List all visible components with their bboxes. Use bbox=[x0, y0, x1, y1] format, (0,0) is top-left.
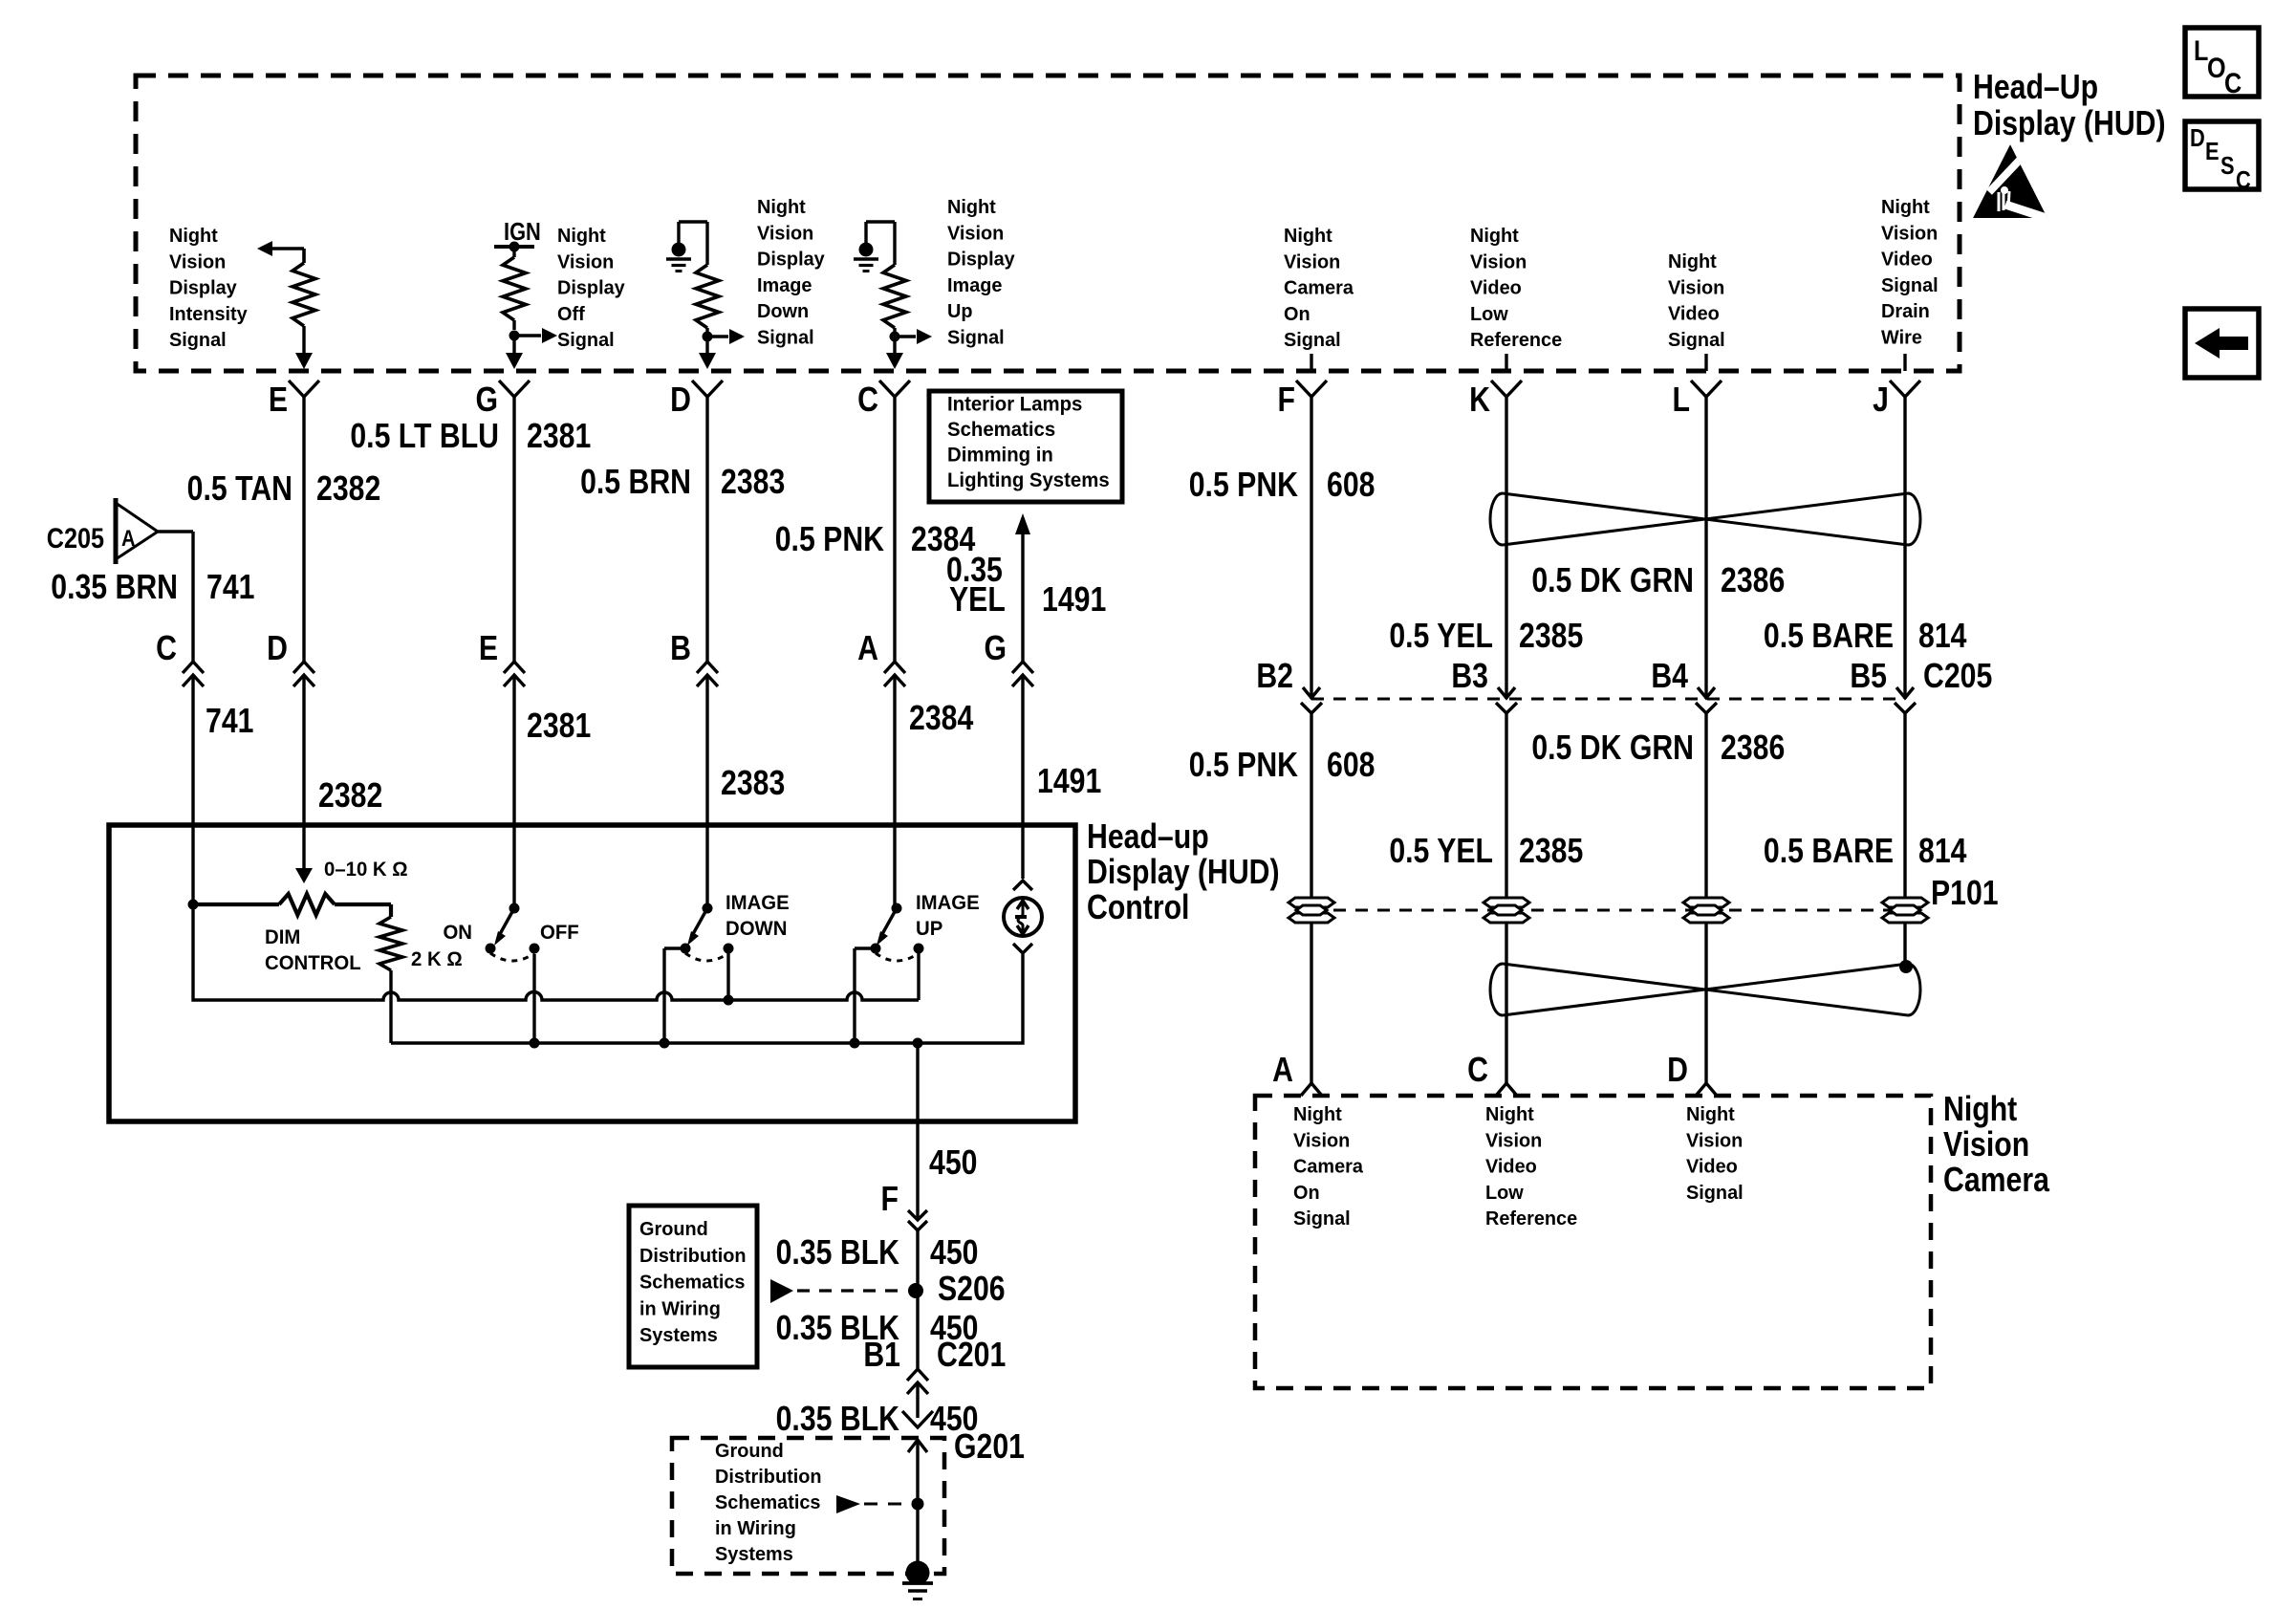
IGN feed bar bbox=[494, 245, 534, 249]
svg-text:2386: 2386 bbox=[1721, 562, 1785, 600]
resistor in HUD (off) bbox=[503, 257, 526, 320]
P101 pass-through grommet bbox=[1683, 898, 1729, 907]
svg-text:Dimming in: Dimming in bbox=[947, 444, 1053, 466]
wire E->C 0.5 TAN 2382 bbox=[302, 397, 305, 662]
svg-text:S: S bbox=[2220, 152, 2235, 180]
illumination control (circle) in HUD control bbox=[1013, 881, 1032, 890]
svg-text:A: A bbox=[1272, 1052, 1293, 1090]
inline connector C (HUD control) bbox=[183, 662, 204, 673]
svg-text:450: 450 bbox=[930, 1234, 978, 1273]
svg-text:Ground: Ground bbox=[639, 1219, 708, 1240]
resistor in HUD (intensity) bbox=[292, 263, 315, 326]
svg-text:608: 608 bbox=[1327, 467, 1375, 505]
svg-text:B5: B5 bbox=[1850, 658, 1887, 696]
svg-text:0.35 BLK: 0.35 BLK bbox=[776, 1234, 899, 1273]
junction on upper bus bbox=[724, 995, 734, 1006]
wire 741 into HUD control bbox=[191, 675, 194, 904]
svg-text:2 K Ω: 2 K Ω bbox=[411, 948, 463, 970]
wire D->B 0.5 BRN 2383 bbox=[705, 397, 708, 662]
svg-text:Ground: Ground bbox=[715, 1441, 784, 1462]
svg-text:Reference: Reference bbox=[1485, 1208, 1577, 1229]
svg-text:IMAGE: IMAGE bbox=[726, 892, 790, 914]
svg-text:814: 814 bbox=[1918, 833, 1967, 871]
svg-text:Low: Low bbox=[1470, 304, 1508, 325]
svg-text:0.5 BRN: 0.5 BRN bbox=[580, 464, 691, 502]
DESC box bbox=[2185, 121, 2259, 189]
svg-text:Vision: Vision bbox=[1668, 277, 1724, 298]
svg-text:Video: Video bbox=[1485, 1156, 1537, 1177]
svg-text:2383: 2383 bbox=[721, 765, 785, 803]
connector pin C of HUD bbox=[879, 381, 910, 397]
connector pin B4 bbox=[1698, 687, 1715, 698]
svg-text:Head–up: Head–up bbox=[1087, 818, 1209, 857]
inline connector P101 bbox=[1311, 909, 1917, 912]
svg-text:C205: C205 bbox=[1923, 658, 1992, 696]
svg-text:C205: C205 bbox=[47, 522, 104, 555]
junction image-down wire bbox=[660, 1038, 670, 1049]
DIM CONTROL potentiometer 0-10 K ohm bbox=[279, 894, 335, 915]
svg-text:O: O bbox=[2207, 52, 2226, 84]
dashed link arrow inside G201 box bbox=[836, 1495, 860, 1513]
svg-text:Schematics: Schematics bbox=[947, 419, 1055, 441]
svg-text:IGN: IGN bbox=[504, 218, 541, 246]
wire 2381 into HUD control bbox=[512, 675, 515, 908]
wire 608 F->B2 bbox=[1310, 397, 1312, 699]
svg-text:C: C bbox=[2236, 166, 2251, 194]
svg-text:Off: Off bbox=[557, 304, 585, 325]
svg-text:814: 814 bbox=[1918, 618, 1967, 656]
svg-text:A: A bbox=[857, 630, 878, 668]
svg-text:L: L bbox=[1673, 381, 1690, 420]
svg-text:CONTROL: CONTROL bbox=[265, 952, 361, 974]
svg-text:Night: Night bbox=[1485, 1104, 1534, 1125]
svg-text:P101: P101 bbox=[1931, 875, 1999, 913]
connector pin F of HUD bbox=[1296, 381, 1327, 397]
wire 0.35 YEL 1491 with arrow up to Interior Lamps box bbox=[1015, 513, 1030, 534]
svg-text:E: E bbox=[269, 381, 288, 420]
svg-text:Night: Night bbox=[1686, 1104, 1735, 1125]
svg-text:Night: Night bbox=[1293, 1104, 1342, 1125]
svg-text:Vision: Vision bbox=[1686, 1130, 1743, 1151]
svg-text:C201: C201 bbox=[937, 1337, 1006, 1375]
svg-text:Camera: Camera bbox=[1293, 1156, 1364, 1177]
svg-text:2381: 2381 bbox=[527, 707, 591, 746]
svg-text:Vision: Vision bbox=[1943, 1126, 2029, 1164]
wire 1491 into HUD control bbox=[1021, 675, 1024, 879]
ground symbol (image up) bbox=[859, 243, 874, 257]
svg-text:Low: Low bbox=[1485, 1183, 1524, 1204]
svg-text:Systems: Systems bbox=[639, 1325, 718, 1346]
Interior Lamps Schematics reference box bbox=[929, 391, 1122, 502]
wire G->E 0.5 LT BLU 2381 bbox=[512, 397, 515, 662]
wire OFF contact down bbox=[532, 954, 535, 1043]
svg-text:Video: Video bbox=[1881, 249, 1933, 270]
svg-text:Display (HUD): Display (HUD) bbox=[1087, 854, 1280, 892]
connector pin D of HUD bbox=[692, 381, 723, 397]
bus wire (upper) with hops bbox=[193, 904, 919, 1000]
svg-text:0.35 BLK: 0.35 BLK bbox=[776, 1401, 899, 1439]
svg-text:Signal: Signal bbox=[1881, 275, 1939, 296]
svg-text:0.5 BARE: 0.5 BARE bbox=[1764, 618, 1894, 656]
svg-text:Video: Video bbox=[1668, 303, 1720, 324]
wire 2385 B3->P101 bbox=[1505, 713, 1507, 1083]
svg-text:1491: 1491 bbox=[1042, 581, 1106, 620]
svg-text:2382: 2382 bbox=[316, 470, 380, 509]
LOC box bbox=[2185, 28, 2259, 97]
twisted pair symbol (lower) bbox=[1503, 964, 1908, 1015]
svg-text:2382: 2382 bbox=[318, 777, 382, 816]
svg-text:S206: S206 bbox=[938, 1271, 1006, 1309]
svg-text:Vision: Vision bbox=[1485, 1130, 1542, 1151]
svg-text:Signal: Signal bbox=[169, 330, 227, 351]
svg-text:UP: UP bbox=[916, 918, 942, 940]
svg-text:0.5 PNK: 0.5 PNK bbox=[1189, 747, 1298, 785]
Night Vision Camera dashed box bbox=[1255, 1096, 1931, 1388]
svg-text:Display: Display bbox=[557, 277, 625, 298]
resistor 2 K ohm bbox=[379, 917, 402, 970]
switch IMAGE UP bbox=[892, 903, 902, 914]
arrow to Up Signal text bbox=[895, 335, 916, 337]
svg-text:B3: B3 bbox=[1451, 658, 1488, 696]
wire 2384 into HUD control bbox=[893, 675, 896, 908]
svg-text:IMAGE: IMAGE bbox=[916, 892, 980, 914]
svg-text:J: J bbox=[1873, 381, 1889, 420]
svg-text:450: 450 bbox=[929, 1144, 977, 1183]
connector pin G of HUD bbox=[499, 381, 530, 397]
svg-text:Head–Up: Head–Up bbox=[1973, 69, 2098, 107]
Ground Distribution Schematics reference box (dashed, G201) bbox=[672, 1438, 944, 1574]
svg-text:2385: 2385 bbox=[1519, 618, 1583, 656]
connector pin B5 bbox=[1896, 687, 1914, 698]
inline connector B (HUD control) bbox=[697, 662, 718, 673]
svg-text:YEL: YEL bbox=[949, 581, 1006, 620]
Head-Up Display (HUD) component dashed box bbox=[136, 76, 1960, 371]
wire image-down right contact bbox=[726, 948, 729, 1000]
svg-text:E: E bbox=[2205, 138, 2220, 165]
arrow to Down Signal text bbox=[707, 335, 728, 337]
svg-text:Interior Lamps: Interior Lamps bbox=[947, 393, 1082, 415]
svg-text:K: K bbox=[1469, 381, 1490, 420]
ground stud G201 bbox=[906, 1561, 930, 1585]
svg-text:DIM: DIM bbox=[265, 926, 300, 948]
svg-text:Vision: Vision bbox=[557, 251, 614, 272]
svg-text:0.5 YEL: 0.5 YEL bbox=[1389, 618, 1493, 656]
svg-text:Signal: Signal bbox=[1284, 330, 1341, 351]
svg-text:Signal: Signal bbox=[1668, 330, 1725, 351]
svg-text:A: A bbox=[121, 525, 136, 551]
svg-text:0.5 YEL: 0.5 YEL bbox=[1389, 833, 1493, 871]
svg-text:0.5 PNK: 0.5 PNK bbox=[1189, 467, 1298, 505]
camera connector pin C bbox=[1496, 1083, 1517, 1096]
wire pot left bbox=[193, 903, 279, 906]
svg-text:Signal: Signal bbox=[947, 327, 1005, 348]
svg-text:Display (HUD): Display (HUD) bbox=[1973, 105, 2166, 143]
connector pin B3 bbox=[1498, 687, 1515, 698]
svg-text:Distribution: Distribution bbox=[715, 1467, 822, 1488]
svg-text:Camera: Camera bbox=[1943, 1162, 2049, 1200]
svg-text:B2: B2 bbox=[1256, 658, 1293, 696]
Head-up Display (HUD) Control box bbox=[109, 825, 1075, 1121]
svg-text:C: C bbox=[1467, 1052, 1488, 1090]
P101 pass-through grommet bbox=[1289, 898, 1334, 907]
svg-text:D: D bbox=[670, 381, 691, 420]
wire 2383 into HUD control bbox=[705, 675, 708, 908]
twisted pair symbol (upper) bbox=[1503, 493, 1908, 545]
svg-text:Image: Image bbox=[947, 275, 1002, 296]
svg-text:C: C bbox=[857, 381, 878, 420]
wire 814 B5->P101 bbox=[1903, 713, 1906, 969]
svg-text:OFF: OFF bbox=[540, 922, 579, 944]
svg-text:Display: Display bbox=[757, 249, 825, 270]
wire 2382 into HUD control bbox=[302, 675, 305, 868]
wire C->A 0.5 PNK 2384 bbox=[893, 397, 896, 662]
wire 450 out of HUD control bbox=[916, 1043, 919, 1220]
svg-text:C: C bbox=[2224, 67, 2242, 99]
svg-text:Signal: Signal bbox=[557, 330, 615, 351]
svg-text:0.5 BARE: 0.5 BARE bbox=[1764, 833, 1894, 871]
svg-text:F: F bbox=[881, 1181, 899, 1219]
svg-text:Video: Video bbox=[1686, 1156, 1738, 1177]
svg-text:Lighting Systems: Lighting Systems bbox=[947, 469, 1110, 491]
svg-text:Video: Video bbox=[1470, 277, 1522, 298]
svg-text:Reference: Reference bbox=[1470, 330, 1562, 351]
wire 0.35 BRN 741 from C205 bbox=[158, 530, 193, 533]
svg-text:D: D bbox=[267, 630, 288, 668]
wire image-down left contact bbox=[664, 946, 685, 949]
P101 pass-through grommet bbox=[1882, 898, 1928, 907]
inline connector E (HUD control) bbox=[504, 662, 525, 673]
connector pin B2 bbox=[1303, 687, 1320, 698]
svg-text:Systems: Systems bbox=[715, 1544, 793, 1565]
wire 814 J->B5 bbox=[1903, 397, 1906, 699]
splice S206 bbox=[908, 1283, 923, 1298]
svg-text:2383: 2383 bbox=[721, 464, 785, 502]
connector pin L of HUD bbox=[1691, 381, 1722, 397]
svg-text:DOWN: DOWN bbox=[726, 918, 787, 940]
svg-text:Image: Image bbox=[757, 275, 812, 296]
Ground Distribution Schematics reference box (solid) bbox=[629, 1206, 757, 1367]
svg-text:Vision: Vision bbox=[169, 251, 226, 272]
svg-text:B1: B1 bbox=[863, 1337, 900, 1375]
inline connector G (HUD control) bbox=[1012, 662, 1033, 673]
svg-text:Distribution: Distribution bbox=[639, 1246, 747, 1267]
svg-text:Camera: Camera bbox=[1284, 277, 1354, 298]
svg-text:E: E bbox=[479, 630, 498, 668]
svg-text:G: G bbox=[984, 630, 1007, 668]
arrow from 2382 onto DIM CONTROL bbox=[295, 868, 313, 883]
resistor in HUD (image up) bbox=[883, 265, 906, 328]
svg-text:Vision: Vision bbox=[1881, 223, 1938, 244]
node: pot left terminal bbox=[188, 900, 199, 910]
svg-text:Down: Down bbox=[757, 301, 809, 322]
camera connector pin D bbox=[1696, 1083, 1717, 1096]
svg-text:G: G bbox=[475, 381, 498, 420]
svg-text:741: 741 bbox=[206, 569, 254, 607]
svg-text:2385: 2385 bbox=[1519, 833, 1583, 871]
wire 2386 L->B4 bbox=[1704, 397, 1707, 699]
junction OFF wire bbox=[530, 1038, 540, 1049]
svg-text:0.5 PNK: 0.5 PNK bbox=[775, 521, 884, 559]
svg-text:1491: 1491 bbox=[1037, 763, 1101, 801]
ground symbol (image down) bbox=[672, 243, 686, 257]
P101 pass-through grommet bbox=[1484, 898, 1529, 907]
svg-text:L: L bbox=[2194, 34, 2208, 67]
svg-text:2381: 2381 bbox=[527, 418, 591, 456]
svg-text:Vision: Vision bbox=[1293, 1130, 1350, 1151]
svg-text:Signal: Signal bbox=[1686, 1183, 1744, 1204]
svg-text:0.5 DK GRN: 0.5 DK GRN bbox=[1531, 562, 1694, 600]
svg-text:Up: Up bbox=[947, 301, 973, 322]
svg-text:0.5 LT BLU: 0.5 LT BLU bbox=[350, 418, 499, 456]
svg-text:Vision: Vision bbox=[947, 223, 1004, 244]
inline connector A (HUD control) bbox=[884, 662, 905, 673]
svg-text:Night: Night bbox=[757, 197, 806, 218]
potentiometer wiper arrow (left) bbox=[271, 247, 304, 250]
svg-text:0.5 TAN: 0.5 TAN bbox=[187, 470, 292, 509]
wire 608 B2->P101 bbox=[1310, 712, 1312, 1083]
svg-text:Vision: Vision bbox=[757, 223, 813, 244]
connector pin E of HUD bbox=[289, 381, 319, 397]
inline connector D (HUD control) bbox=[293, 662, 314, 673]
svg-text:2384: 2384 bbox=[909, 700, 974, 738]
svg-text:Night: Night bbox=[1943, 1091, 2017, 1129]
resistor in HUD (image down) bbox=[696, 265, 719, 328]
svg-text:608: 608 bbox=[1327, 747, 1375, 785]
svg-text:Schematics: Schematics bbox=[715, 1492, 820, 1513]
drain wire termination node bbox=[1899, 960, 1913, 973]
svg-text:F: F bbox=[1278, 381, 1295, 420]
svg-text:Wire: Wire bbox=[1881, 327, 1922, 348]
camera connector pin A bbox=[1301, 1083, 1322, 1096]
ground G201 bbox=[902, 1411, 933, 1427]
svg-text:Night: Night bbox=[947, 197, 996, 218]
wire pot right to 2K resistor bbox=[335, 903, 391, 906]
svg-text:Display: Display bbox=[169, 277, 237, 298]
svg-text:0.5 DK GRN: 0.5 DK GRN bbox=[1531, 729, 1694, 768]
svg-text:G201: G201 bbox=[954, 1428, 1025, 1467]
inline connector C205 row B2-B5 bbox=[1311, 698, 1905, 701]
svg-text:Control: Control bbox=[1087, 889, 1189, 927]
svg-text:C: C bbox=[156, 630, 177, 668]
svg-text:Schematics: Schematics bbox=[639, 1272, 745, 1293]
arrow to Off Signal text bbox=[514, 334, 541, 337]
wire image-up right contact bbox=[917, 948, 920, 1000]
svg-text:B4: B4 bbox=[1651, 658, 1688, 696]
svg-text:0–10 K Ω: 0–10 K Ω bbox=[324, 859, 408, 881]
wire image-up left contact bbox=[855, 946, 876, 949]
junction 450 take-off bbox=[913, 1038, 923, 1049]
svg-text:Intensity: Intensity bbox=[169, 304, 248, 325]
svg-text:Night: Night bbox=[1470, 226, 1519, 247]
svg-text:On: On bbox=[1284, 304, 1310, 325]
svg-text:Vision: Vision bbox=[1284, 251, 1340, 272]
svg-text:in Wiring: in Wiring bbox=[715, 1518, 796, 1539]
svg-text:Night: Night bbox=[1284, 226, 1332, 247]
svg-text:Night: Night bbox=[1881, 197, 1930, 218]
svg-text:Signal: Signal bbox=[1293, 1208, 1351, 1229]
svg-text:Vision: Vision bbox=[1470, 251, 1527, 272]
svg-text:Night: Night bbox=[169, 226, 218, 247]
svg-text:Drain: Drain bbox=[1881, 301, 1930, 322]
svg-text:2386: 2386 bbox=[1721, 729, 1785, 768]
wire 2385 K->B3 bbox=[1505, 397, 1507, 699]
svg-text:B: B bbox=[670, 630, 691, 668]
svg-text:Display: Display bbox=[947, 249, 1015, 270]
switch ON/OFF (display off signal) bbox=[509, 903, 520, 914]
svg-text:0.35 BRN: 0.35 BRN bbox=[51, 569, 178, 607]
back-arrow box bbox=[2185, 309, 2259, 378]
svg-text:D: D bbox=[2190, 124, 2205, 152]
arrow to connector E bbox=[295, 353, 313, 369]
connector pin J of HUD bbox=[1890, 381, 1920, 397]
svg-text:Night: Night bbox=[1668, 251, 1717, 272]
svg-text:741: 741 bbox=[206, 703, 253, 741]
svg-text:Signal: Signal bbox=[757, 327, 814, 348]
svg-text:ON: ON bbox=[443, 922, 472, 944]
junction image-up wire bbox=[850, 1038, 860, 1049]
bus wire (lower) bbox=[391, 954, 1023, 1043]
svg-text:Night: Night bbox=[557, 226, 606, 247]
svg-text:D: D bbox=[1667, 1052, 1688, 1090]
svg-text:On: On bbox=[1293, 1183, 1320, 1204]
wire 2386 B4->P101 bbox=[1704, 713, 1707, 1083]
svg-text:in Wiring: in Wiring bbox=[639, 1298, 721, 1319]
switch IMAGE DOWN bbox=[703, 903, 713, 914]
connector pin K of HUD bbox=[1491, 381, 1522, 397]
